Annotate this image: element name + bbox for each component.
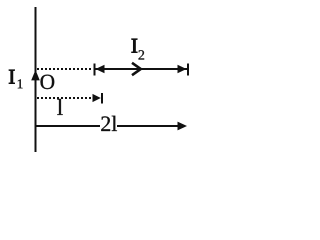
label I1 (I) [9,70,14,84]
wire: dotted distance line from wire to tick at distance l [37,97,92,99]
arrowhead: right end of I2 extent (points right) [178,65,187,73]
value label l [57,99,62,115]
wire: distance line 2l from vertical wire [35,125,100,127]
wire: dotted construction line from O to left end of I2 wire [37,68,91,70]
node: tick at distance l [101,93,103,104]
arrowhead: end of distance 2l (points right) [178,122,188,131]
arrowhead: end of distance l (points right) [93,94,101,102]
arrowhead: left end of I2 extent (points left) [96,65,105,73]
label I2 (subscript 2) [139,50,145,59]
wire: segment carrying I2 [95,68,187,70]
arrowhead: current direction I1 (upward) on vertical wire [31,70,40,81]
node: left end tick of I2 wire [94,64,96,76]
arrowhead: current direction I2 (open chevron, mid-wire) [132,63,141,75]
node: right end tick of I2 wire [187,64,189,76]
node O label [40,75,54,89]
label I1 (subscript 1) [18,79,23,88]
value label 2l [101,116,117,131]
label I2 (I) [132,39,137,53]
wire: long vertical conductor through O [35,7,37,152]
